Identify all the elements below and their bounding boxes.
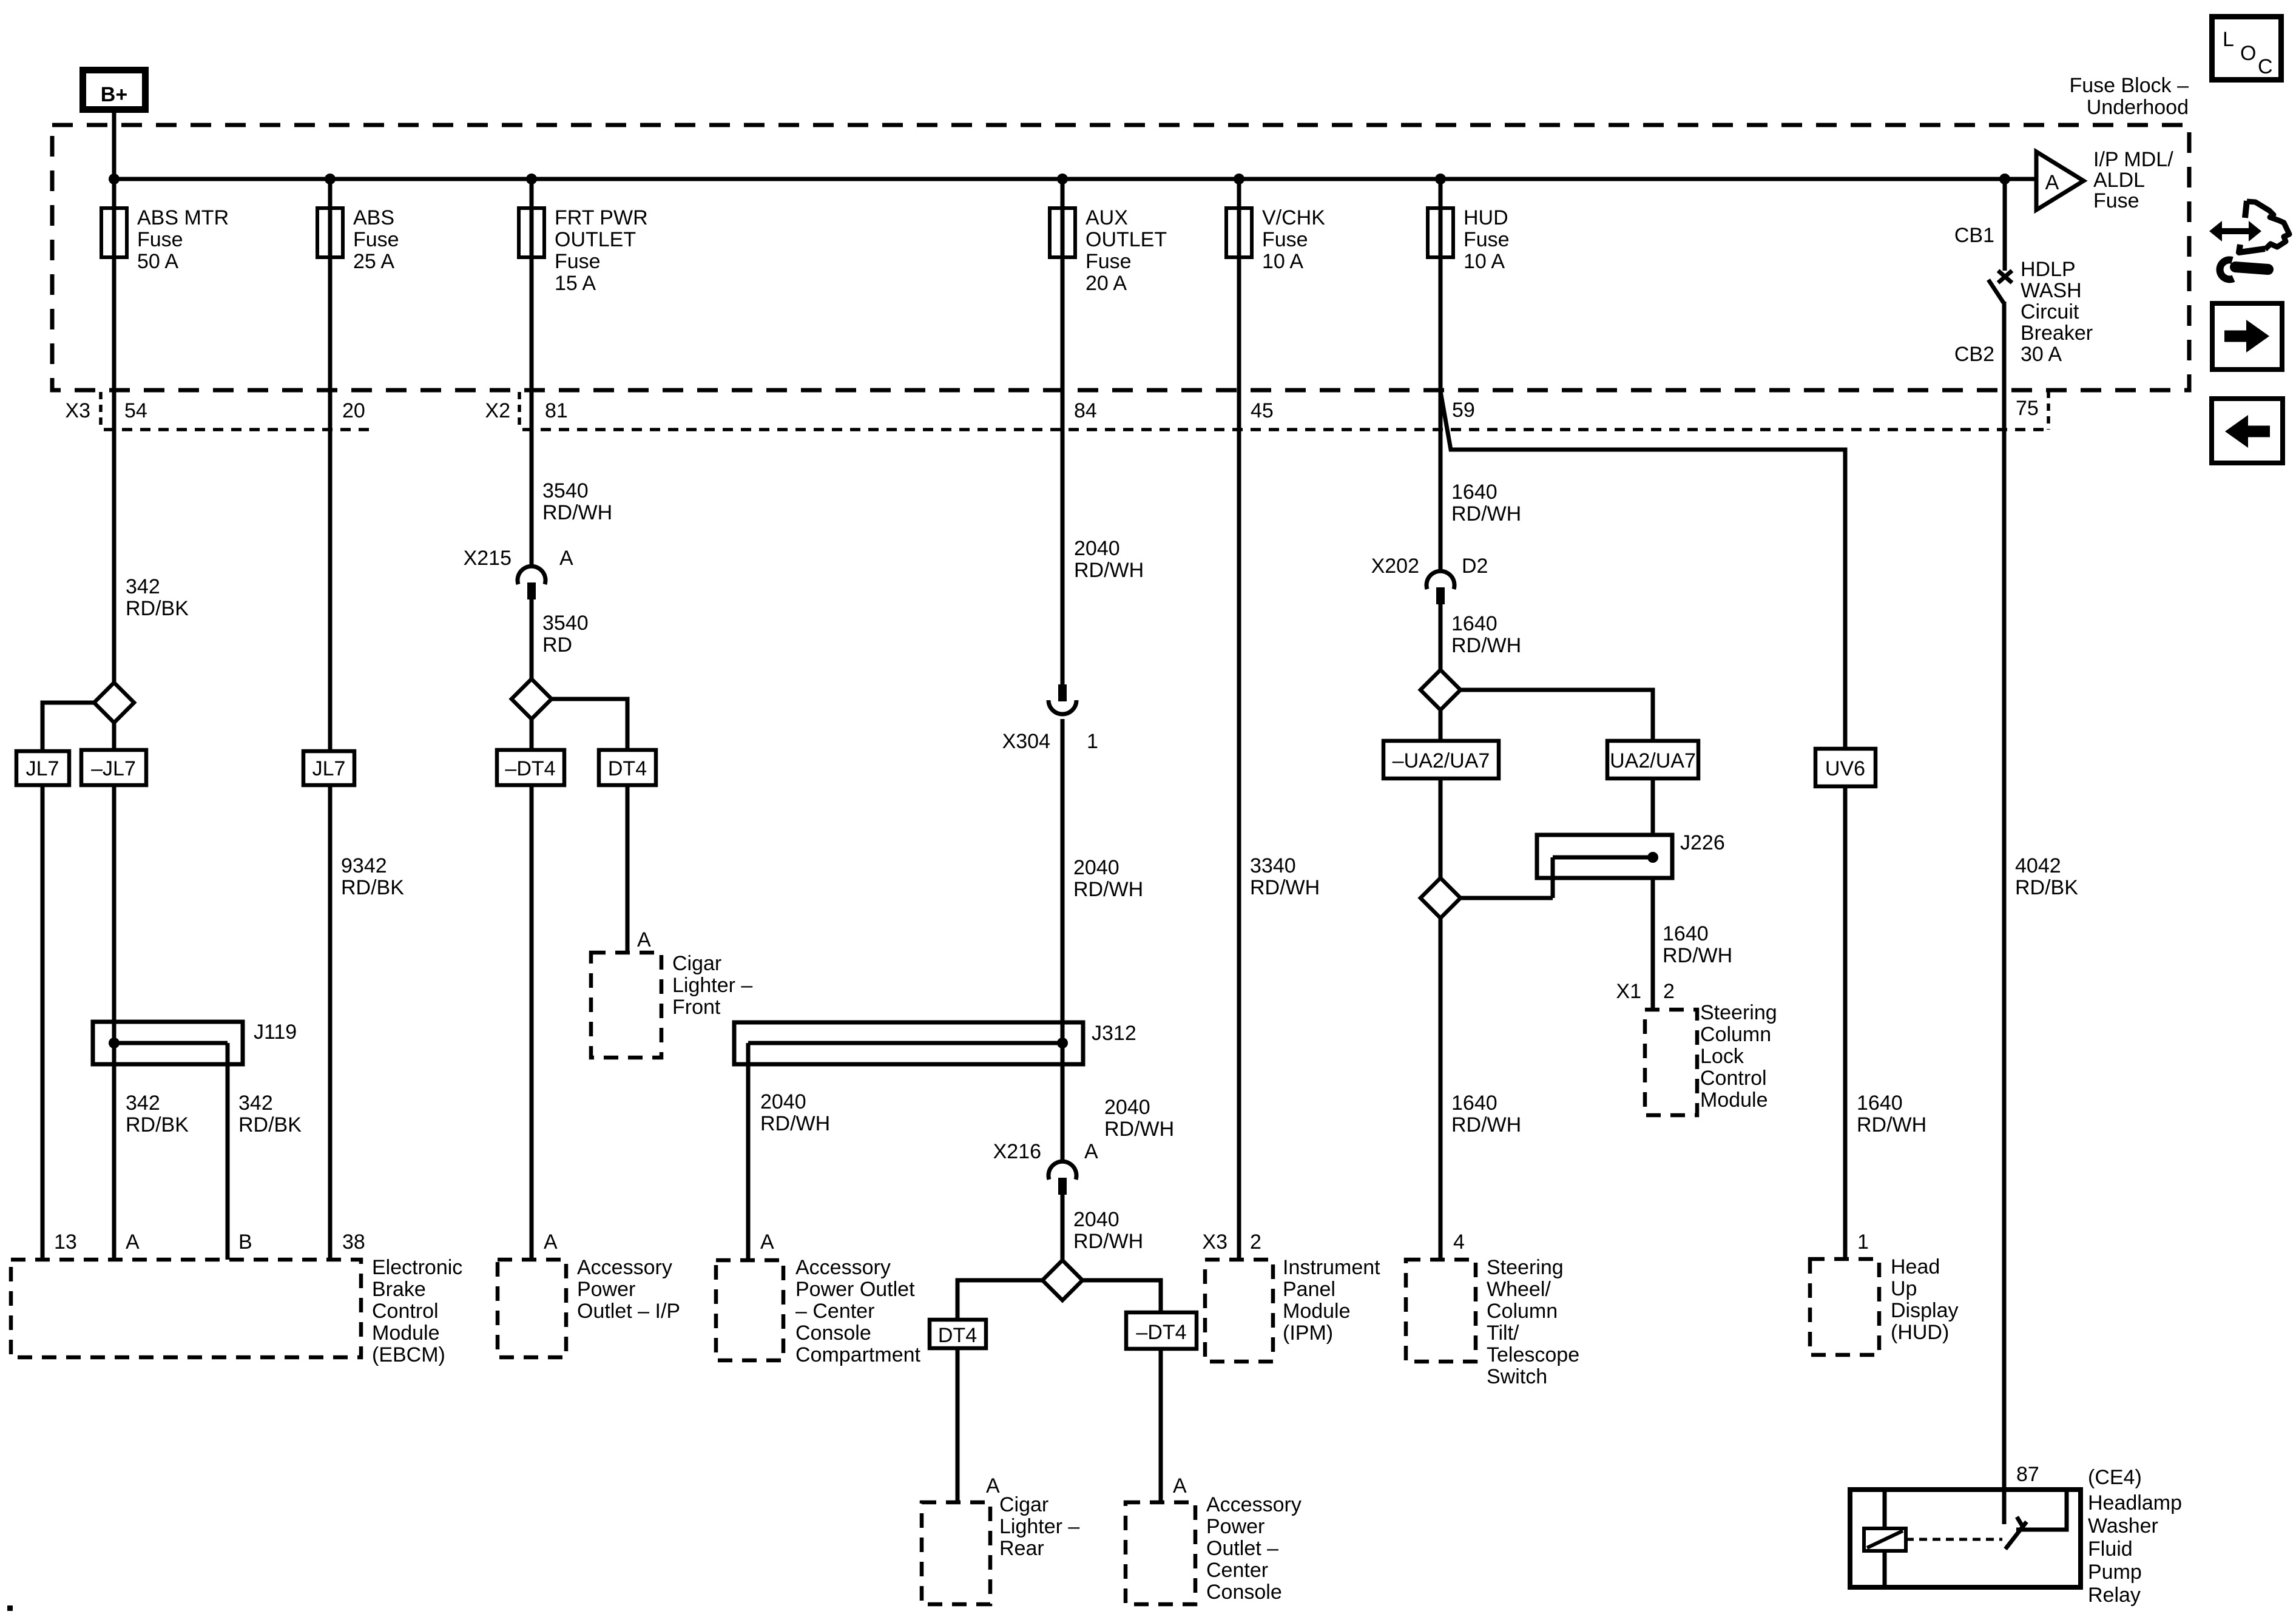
svg-text:Module: Module	[1700, 1089, 1768, 1112]
svg-text:–DT4: –DT4	[505, 757, 555, 780]
svg-text:Lighter –: Lighter –	[999, 1515, 1079, 1538]
label 342 RD/BK (pin B)	[238, 1092, 302, 1136]
svg-text:15 A: 15 A	[555, 272, 596, 295]
svg-text:Module: Module	[372, 1322, 440, 1345]
svg-text:2040: 2040	[1073, 1208, 1119, 1231]
svg-text:20: 20	[342, 399, 365, 422]
label 1640 RD/WH (hud upper)	[1451, 481, 1521, 525]
svg-text:(EBCM): (EBCM)	[372, 1343, 445, 1366]
circuit breaker CB1/CB2 HDLP WASH 30 A	[1954, 179, 2012, 366]
wire UA2/UA7 to steering column lock	[1651, 878, 1655, 1010]
svg-text:D2: D2	[1462, 555, 1488, 578]
wire col3 lower	[530, 719, 534, 1260]
label 3340 RD/WH	[1250, 854, 1320, 899]
svg-text:10 A: 10 A	[1262, 250, 1303, 273]
wire col2 lower	[328, 785, 333, 1260]
svg-text:B: B	[238, 1230, 252, 1254]
module head up display dashed box	[1810, 1259, 1879, 1355]
svg-text:Power: Power	[577, 1278, 635, 1301]
page period mark	[7, 1605, 13, 1611]
label Instrument Panel Module (IPM)	[1283, 1256, 1380, 1345]
svg-text:1: 1	[1857, 1230, 1869, 1254]
connector X304 pin 1	[1002, 684, 1098, 753]
fuse box DT4 (rear)	[930, 1320, 986, 1348]
svg-text:RD/WH: RD/WH	[1663, 944, 1732, 967]
svg-text:FRT PWR: FRT PWR	[555, 206, 648, 229]
svg-text:Panel: Panel	[1283, 1278, 1335, 1301]
svg-text:Instrument: Instrument	[1283, 1256, 1380, 1279]
module accessory power outlet center console dashed box	[1126, 1502, 1195, 1604]
node bus junction FRT PWR OUTLET	[526, 174, 537, 184]
wire ABS MTR fuse column	[112, 179, 116, 683]
svg-text:V/CHK: V/CHK	[1262, 206, 1325, 229]
svg-text:342: 342	[126, 1092, 160, 1115]
svg-text:Outlet –: Outlet –	[1206, 1537, 1278, 1560]
svg-text:X304: X304	[1002, 730, 1050, 753]
svg-text:X2: X2	[485, 399, 510, 422]
svg-text:Fuse: Fuse	[2093, 189, 2139, 212]
svg-text:50 A: 50 A	[137, 250, 178, 273]
label 9342 RD/BK	[341, 854, 404, 899]
svg-text:Steering: Steering	[1700, 1001, 1777, 1024]
label 1640 RD/WH (below X202)	[1451, 612, 1521, 657]
wire main bus	[114, 177, 2036, 181]
module EBCM dashed box	[11, 1260, 361, 1357]
connector X2 separator	[518, 392, 521, 430]
label Headlamp Washer Fluid Pump Relay	[2088, 1491, 2182, 1607]
module instrument panel module dashed box	[1205, 1260, 1273, 1362]
svg-text:Circuit: Circuit	[2021, 300, 2079, 323]
wire ABS fuse column	[328, 179, 333, 751]
svg-text:(CE4): (CE4)	[2088, 1466, 2142, 1489]
svg-text:Compartment: Compartment	[795, 1343, 921, 1366]
svg-text:(HUD): (HUD)	[1891, 1321, 1949, 1344]
svg-text:OUTLET: OUTLET	[1086, 228, 1167, 251]
module steering column lock dashed box	[1645, 1010, 1697, 1115]
svg-text:3540: 3540	[542, 479, 589, 502]
service manual icon (arrow/wrench)	[2209, 201, 2289, 279]
svg-text:Headlamp: Headlamp	[2088, 1491, 2182, 1514]
svg-text:(IPM): (IPM)	[1283, 1322, 1333, 1345]
svg-text:4: 4	[1453, 1230, 1465, 1254]
svg-text:A: A	[637, 928, 651, 951]
label 2040 RD/WH (aux upper)	[1074, 537, 1144, 582]
Fuse Block - Underhood label	[2069, 74, 2189, 119]
splice diamond col3	[512, 679, 552, 719]
svg-text:3540: 3540	[542, 612, 589, 635]
svg-text:ALDL: ALDL	[2093, 169, 2145, 192]
svg-text:Accessory: Accessory	[1206, 1493, 1302, 1516]
svg-text:75: 75	[2016, 397, 2039, 420]
module cigar lighter front dashed box	[591, 953, 661, 1058]
svg-text:X202: X202	[1371, 555, 1419, 578]
svg-text:Display: Display	[1891, 1299, 1958, 1322]
svg-text:3340: 3340	[1250, 854, 1296, 877]
relay headlamp washer fluid pump	[1850, 1490, 2081, 1587]
svg-text:RD/BK: RD/BK	[126, 1113, 189, 1136]
svg-text:Fuse Block –: Fuse Block –	[2069, 74, 2189, 97]
svg-text:Center: Center	[1206, 1559, 1268, 1582]
svg-text:Wheel/: Wheel/	[1487, 1278, 1551, 1301]
svg-text:HUD: HUD	[1464, 206, 1508, 229]
svg-text:Console: Console	[1206, 1581, 1282, 1604]
label Accessory Power Outlet Center Console Compartment	[795, 1256, 921, 1366]
svg-text:87: 87	[2016, 1463, 2039, 1486]
svg-text:RD/BK: RD/BK	[126, 597, 189, 620]
svg-text:Telescope: Telescope	[1487, 1343, 1579, 1366]
svg-text:J226: J226	[1680, 831, 1725, 854]
svg-text:DT4: DT4	[938, 1324, 977, 1347]
svg-text:Underhood: Underhood	[2087, 96, 2189, 119]
svg-text:Fuse: Fuse	[555, 250, 601, 273]
label Steering Column Lock Control Module	[1700, 1001, 1777, 1112]
module accessory power outlet center console compartment dashed box	[716, 1260, 783, 1360]
wire aux below X216	[1061, 1193, 1065, 1261]
wire B+ stub	[112, 109, 116, 179]
svg-text:C: C	[2258, 55, 2273, 78]
label 2040 RD/WH (below X304)	[1073, 856, 1143, 901]
svg-text:L: L	[2223, 28, 2234, 51]
wire AUX OUTLET fuse column	[1061, 179, 1065, 686]
svg-text:30 A: 30 A	[2021, 343, 2062, 366]
svg-text:Up: Up	[1891, 1277, 1917, 1300]
node bus junction HUD	[1435, 174, 1446, 184]
B+ battery feed terminal	[83, 70, 146, 110]
fuse ABS 25 A	[317, 206, 399, 273]
label Cigar Lighter - Rear	[999, 1493, 1079, 1560]
module cigar lighter rear dashed box	[922, 1502, 990, 1604]
svg-text:J312: J312	[1092, 1022, 1136, 1045]
svg-text:342: 342	[126, 575, 160, 598]
svg-text:Fuse: Fuse	[1262, 228, 1308, 251]
wire hud lower to steering wheel switch	[1439, 918, 1443, 1260]
wire branch diamond2 to J226	[1460, 896, 1553, 900]
svg-text:Relay: Relay	[2088, 1584, 2141, 1607]
fuse block underhood dashed box	[52, 125, 2189, 390]
label 1640 RD/WH (steering wheel column)	[1451, 1092, 1521, 1136]
fuse box -DT4	[497, 750, 564, 785]
splice diamond hud1	[1420, 670, 1460, 710]
svg-text:2: 2	[1250, 1230, 1261, 1254]
svg-text:WASH: WASH	[2021, 279, 2082, 302]
label 3540 RD	[542, 612, 589, 657]
svg-text:UA2/UA7: UA2/UA7	[1610, 749, 1696, 772]
svg-text:RD/WH: RD/WH	[1073, 1230, 1143, 1253]
svg-text:A: A	[986, 1474, 1000, 1497]
fuse box UA2/UA7	[1607, 741, 1698, 778]
svg-text:RD: RD	[542, 633, 572, 657]
svg-text:Tilt/: Tilt/	[1487, 1322, 1519, 1345]
svg-text:4042: 4042	[2015, 854, 2061, 877]
svg-text:59: 59	[1452, 399, 1475, 422]
connector X216 pin A	[993, 1140, 1098, 1195]
svg-text:Washer: Washer	[2088, 1514, 2158, 1538]
svg-text:Switch: Switch	[1487, 1365, 1547, 1388]
svg-text:1640: 1640	[1857, 1092, 1903, 1115]
svg-text:Fuse: Fuse	[1086, 250, 1132, 273]
label Head Up Display (HUD)	[1891, 1255, 1958, 1344]
label 2040 RD/WH (pin A center console compartment)	[760, 1090, 830, 1135]
svg-text:84: 84	[1074, 399, 1097, 422]
svg-text:2040: 2040	[1074, 537, 1120, 560]
wire col1 lower	[112, 723, 116, 1260]
svg-text:RD/BK: RD/BK	[238, 1113, 302, 1136]
label HDLP WASH Circuit Breaker 30 A	[2021, 258, 2093, 366]
svg-text:25 A: 25 A	[353, 250, 394, 273]
fuse box JL7 (ABS)	[303, 751, 354, 785]
svg-text:Cigar: Cigar	[672, 952, 721, 975]
svg-text:81: 81	[545, 399, 568, 422]
svg-text:–UA2/UA7: –UA2/UA7	[1393, 749, 1490, 772]
label 1640 RD/WH (head up display)	[1857, 1092, 1926, 1136]
label I/P MDL/ALDL Fuse	[2093, 148, 2173, 212]
svg-text:Power Outlet: Power Outlet	[795, 1278, 915, 1301]
wire circuit breaker output 75 / 4042 RD/BK	[2002, 302, 2007, 1524]
svg-text:Fluid: Fluid	[2088, 1538, 2133, 1561]
svg-text:X3: X3	[1202, 1230, 1227, 1254]
svg-text:Column: Column	[1700, 1023, 1771, 1046]
svg-text:RD/WH: RD/WH	[1074, 559, 1144, 582]
svg-text:A: A	[1173, 1474, 1187, 1497]
wire branch to -DT4 center console	[1082, 1280, 1161, 1502]
svg-text:Control: Control	[1700, 1067, 1767, 1090]
wire hud below X202	[1439, 603, 1443, 671]
svg-text:CB1: CB1	[1954, 224, 1994, 247]
svg-text:RD/WH: RD/WH	[1857, 1113, 1926, 1136]
svg-text:2040: 2040	[760, 1090, 806, 1113]
svg-text:Column: Column	[1487, 1300, 1558, 1323]
svg-text:Console: Console	[795, 1322, 871, 1345]
wire aux below X304	[1061, 719, 1065, 1160]
svg-text:RD/WH: RD/WH	[760, 1112, 830, 1135]
svg-text:20 A: 20 A	[1086, 272, 1127, 295]
svg-text:2040: 2040	[1104, 1096, 1150, 1119]
svg-text:RD/WH: RD/WH	[1073, 878, 1143, 901]
svg-text:Accessory: Accessory	[795, 1256, 891, 1279]
svg-text:Fuse: Fuse	[1464, 228, 1510, 251]
wire fork to head up display branch	[1440, 391, 1845, 1259]
svg-text:RD/WH: RD/WH	[1250, 876, 1320, 899]
svg-text:J119: J119	[254, 1021, 297, 1044]
fuse box -DT4 (center console)	[1126, 1312, 1197, 1349]
svg-text:RD/WH: RD/WH	[1451, 502, 1521, 525]
svg-text:CB2: CB2	[1954, 343, 1994, 366]
svg-text:UV6: UV6	[1825, 757, 1865, 780]
wire branch to DT4 / cigar lighter front	[551, 699, 627, 953]
connector X202 pin D2	[1371, 555, 1488, 604]
svg-text:RD/WH: RD/WH	[1104, 1118, 1174, 1141]
svg-text:1: 1	[1087, 730, 1098, 753]
svg-text:Electronic: Electronic	[372, 1256, 462, 1279]
splice diamond hud2	[1420, 878, 1460, 918]
svg-text:X3: X3	[65, 399, 90, 422]
svg-text:Outlet – I/P: Outlet – I/P	[577, 1300, 680, 1323]
fuse V/CHK 10 A	[1226, 206, 1325, 273]
splice pack J312	[734, 1022, 1136, 1260]
svg-text:RD/BK: RD/BK	[341, 876, 404, 899]
svg-text:Accessory: Accessory	[577, 1256, 672, 1279]
svg-text:Fuse: Fuse	[353, 228, 399, 251]
svg-text:RD/WH: RD/WH	[542, 501, 612, 524]
svg-text:X1: X1	[1616, 980, 1641, 1003]
svg-text:1640: 1640	[1663, 922, 1709, 945]
svg-text:A: A	[760, 1230, 774, 1254]
svg-text:45: 45	[1251, 399, 1274, 422]
svg-text:X215: X215	[464, 547, 512, 570]
svg-text:Control: Control	[372, 1300, 439, 1323]
svg-text:– Center: – Center	[795, 1300, 874, 1323]
svg-text:AUX: AUX	[1086, 206, 1128, 229]
svg-text:2040: 2040	[1073, 856, 1119, 879]
wire branch to DT4 rear	[957, 1280, 1043, 1502]
splice pack J119	[93, 1021, 297, 1260]
connector 75 separator	[2047, 391, 2050, 430]
svg-text:1640: 1640	[1451, 612, 1497, 635]
module steering wheel column tilt telescope switch dashed box	[1406, 1260, 1476, 1362]
svg-text:1640: 1640	[1451, 481, 1497, 504]
label 2040 RD/WH (above J312)	[1104, 1096, 1174, 1141]
triangle connector A to I/P MDL/ALDL fuse	[2036, 152, 2084, 210]
svg-text:Breaker: Breaker	[2021, 322, 2093, 345]
label Steering Wheel/Column Tilt/Telescope Switch	[1487, 1256, 1579, 1388]
fuse FRT PWR OUTLET 15 A	[519, 206, 648, 295]
wire hud between diamonds	[1439, 710, 1443, 879]
connector X3 separator	[99, 392, 103, 430]
arrow box right (continuation forward)	[2212, 303, 2282, 370]
svg-text:HDLP: HDLP	[2021, 258, 2076, 281]
svg-text:54: 54	[124, 399, 147, 422]
svg-text:Rear: Rear	[999, 1537, 1044, 1560]
connector row X3 body (short dashes)	[104, 428, 373, 431]
svg-text:Fuse: Fuse	[137, 228, 183, 251]
svg-text:Front: Front	[672, 996, 721, 1019]
svg-text:13: 13	[54, 1230, 77, 1254]
svg-text:Head: Head	[1891, 1255, 1940, 1278]
svg-text:DT4: DT4	[608, 757, 647, 780]
splice diamond aux lower	[1042, 1260, 1082, 1300]
svg-text:RD/BK: RD/BK	[2015, 876, 2078, 899]
svg-text:B+: B+	[101, 83, 127, 106]
svg-text:A: A	[559, 547, 573, 570]
LOC reference box	[2212, 17, 2281, 80]
svg-text:A: A	[2045, 171, 2059, 194]
svg-text:ABS MTR: ABS MTR	[137, 206, 229, 229]
fuse AUX OUTLET 20 A	[1050, 206, 1167, 295]
wire col3 below X215	[530, 598, 534, 680]
node bus junction V/CHK	[1234, 174, 1244, 184]
fuse box -UA2/UA7	[1383, 741, 1499, 778]
fuse box -JL7	[81, 750, 146, 785]
label 342 RD/BK (pin A)	[126, 1092, 189, 1136]
svg-text:Cigar: Cigar	[999, 1493, 1048, 1516]
svg-text:Steering: Steering	[1487, 1256, 1564, 1279]
svg-text:Lock: Lock	[1700, 1045, 1744, 1068]
svg-text:ABS: ABS	[353, 206, 394, 229]
node bus junction ABS MTR	[109, 174, 120, 184]
svg-text:A: A	[1084, 1140, 1098, 1163]
label 2040 RD/WH (below X216)	[1073, 1208, 1143, 1253]
svg-text:I/P MDL/: I/P MDL/	[2093, 148, 2173, 171]
wire FRT PWR OUTLET fuse column	[530, 179, 534, 565]
wire HUD fuse column	[1439, 179, 1443, 570]
wire V/CHK fuse column	[1237, 179, 1241, 1260]
svg-text:OUTLET: OUTLET	[555, 228, 636, 251]
label Cigar Lighter - Front	[672, 952, 752, 1019]
label Electronic Brake Control Module (EBCM)	[372, 1256, 462, 1366]
svg-text:–DT4: –DT4	[1136, 1321, 1186, 1344]
arrow box left (continuation back)	[2212, 399, 2283, 463]
node bus junction AUX OUTLET	[1057, 174, 1068, 184]
svg-text:A: A	[126, 1230, 140, 1254]
label 1640 RD/WH (below J226)	[1663, 922, 1732, 967]
svg-text:1640: 1640	[1451, 1092, 1497, 1115]
svg-text:38: 38	[342, 1230, 365, 1254]
svg-text:Brake: Brake	[372, 1278, 426, 1301]
label 4042 RD/BK	[2015, 854, 2078, 899]
svg-text:X216: X216	[993, 1140, 1041, 1163]
svg-text:A: A	[544, 1230, 558, 1254]
module accessory power outlet I/P dashed box	[498, 1260, 566, 1357]
svg-text:10 A: 10 A	[1464, 250, 1505, 273]
node bus junction CB1	[1999, 174, 2010, 184]
splice diamond col1	[94, 683, 134, 723]
label Accessory Power Outlet - I/P	[577, 1256, 680, 1323]
svg-text:Power: Power	[1206, 1515, 1264, 1538]
label Accessory Power Outlet - Center Console	[1206, 1493, 1302, 1604]
svg-text:RD/WH: RD/WH	[1451, 634, 1521, 657]
svg-text:O: O	[2240, 42, 2256, 65]
fuse HUD 10 A	[1428, 206, 1510, 273]
fuse ABS MTR 50 A	[101, 206, 229, 273]
connector row X2 body (short dashes)	[522, 428, 2044, 431]
svg-text:JL7: JL7	[312, 757, 346, 780]
fuse box JL7	[16, 751, 69, 785]
fuse box DT4	[599, 750, 656, 785]
svg-text:342: 342	[238, 1092, 273, 1115]
node bus junction ABS	[325, 174, 336, 184]
splice pack J226	[1537, 831, 1725, 898]
svg-text:RD/WH: RD/WH	[1451, 1113, 1521, 1136]
svg-text:9342: 9342	[341, 854, 387, 877]
svg-text:Lighter –: Lighter –	[672, 974, 752, 997]
svg-text:2: 2	[1663, 980, 1675, 1003]
label 3540 RD/WH	[542, 479, 612, 524]
wire branch to JL7	[42, 703, 95, 1260]
svg-text:–JL7: –JL7	[91, 757, 136, 780]
wire branch to UA2/UA7	[1460, 690, 1653, 836]
svg-text:Pump: Pump	[2088, 1561, 2142, 1584]
svg-text:Module: Module	[1283, 1300, 1351, 1323]
fuse box UV6	[1815, 749, 1876, 786]
svg-text:JL7: JL7	[26, 757, 59, 780]
connector X215 pin A	[464, 547, 573, 599]
label 342 RD/BK	[126, 575, 189, 620]
